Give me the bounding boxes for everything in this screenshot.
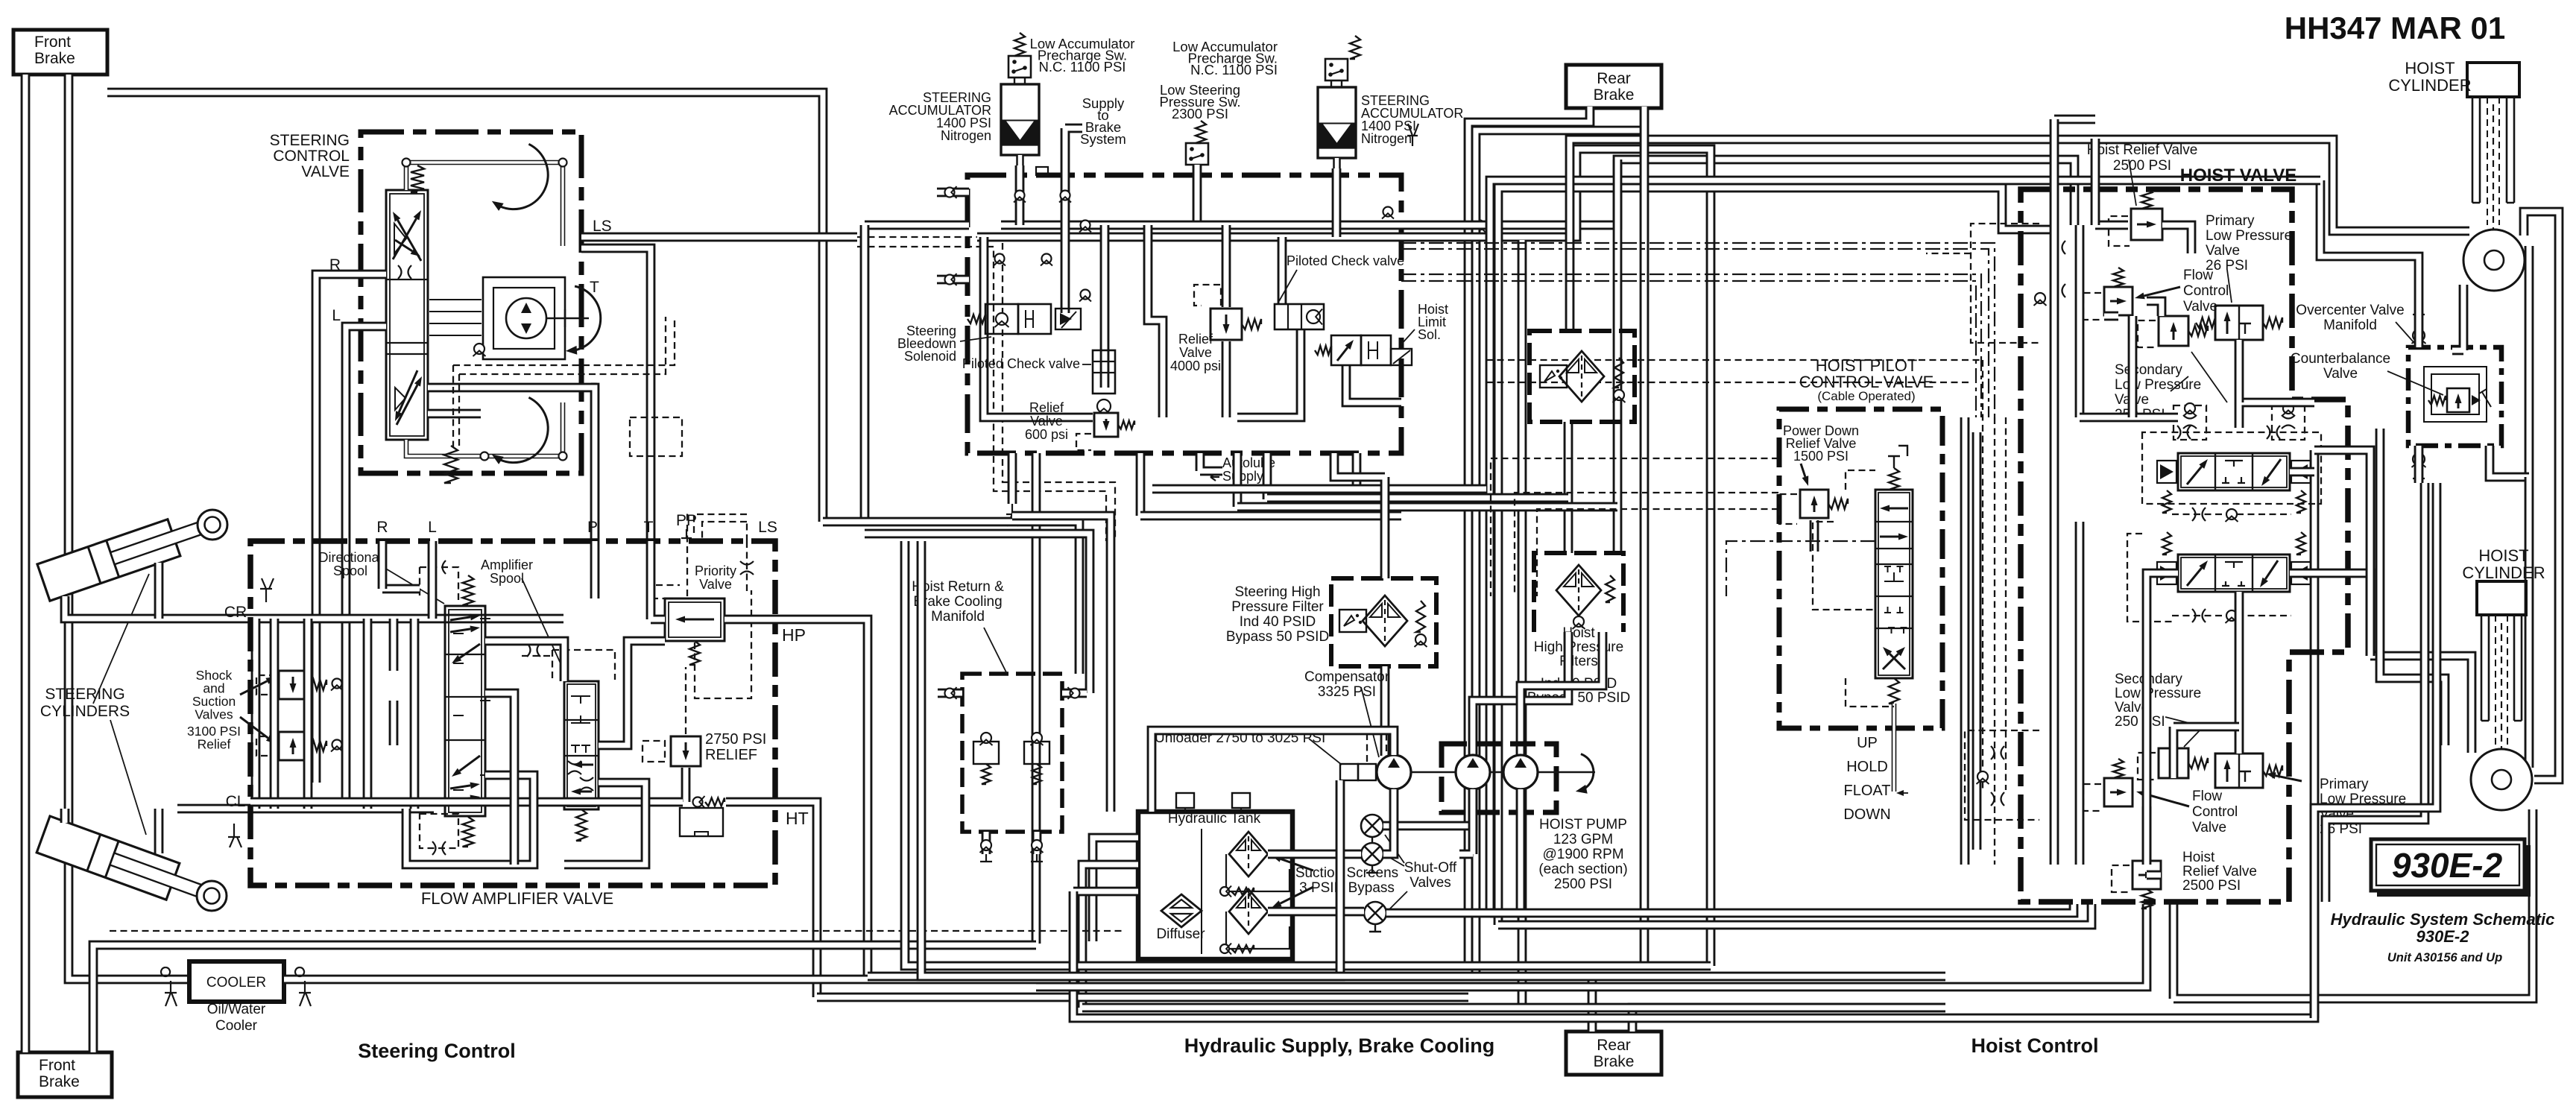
svg-text:System: System [1080, 131, 1126, 147]
steering control valve spool [386, 190, 428, 440]
secondary lp valve top sym [2159, 316, 2188, 346]
wire spool1 top [2239, 402, 2314, 428]
wire pump case drain [1152, 730, 1394, 812]
hoist main spool 2 [2178, 555, 2290, 592]
bleed fitting bottom [228, 824, 241, 847]
pilot cluster1 [1971, 224, 2039, 343]
hydraulic tank [1138, 812, 1292, 959]
svg-text:Low Pressure: Low Pressure [2115, 377, 2201, 393]
pilot line left [1726, 541, 1875, 596]
vent fitting [1407, 124, 1418, 146]
wire cylinder right down [2525, 246, 2534, 477]
svg-text:STEERING: STEERING [270, 132, 350, 149]
svg-text:2300 PSI: 2300 PSI [1172, 106, 1228, 121]
wire L line [346, 326, 386, 799]
pilot long 5 [1491, 458, 1778, 596]
svg-text:Brake: Brake [34, 50, 75, 67]
steering cylinder lower [37, 816, 219, 914]
svg-text:FLOAT: FLOAT [1844, 783, 1891, 799]
wire filter up [1334, 453, 1385, 578]
wire port R drop [378, 541, 388, 589]
wire hv v2 [2075, 225, 2085, 417]
wire stub L2 [937, 275, 969, 285]
svg-text:250 PSI: 250 PSI [2115, 714, 2165, 730]
wire ocm stubs [2414, 313, 2424, 483]
manifold relief 2 [1024, 742, 1049, 764]
wire fc down [2128, 316, 2138, 417]
svg-text:Solenoid: Solenoid [904, 349, 956, 364]
svg-text:Hydraulic Tank: Hydraulic Tank [1168, 811, 1261, 827]
svg-text:Valve: Valve [2192, 820, 2226, 835]
wire psw stem [1193, 165, 1202, 225]
amplifier spool [564, 681, 599, 809]
wire cyl2 port B [154, 809, 164, 853]
svg-text:Manifold: Manifold [2323, 318, 2377, 333]
rear brake box top [1566, 65, 1661, 108]
svg-text:High Pressure: High Pressure [1534, 639, 1623, 655]
wire bottom run G [1490, 904, 2074, 913]
pilot cap top [420, 567, 458, 600]
wire cooler out [284, 975, 1592, 985]
svg-text:3325 PSI: 3325 PSI [1318, 684, 1376, 700]
shock suction valve 1 [279, 671, 307, 699]
hoist relief valve bottom sym [2133, 861, 2161, 889]
screen2 bypass loop [1226, 912, 1289, 949]
wire mid filter link2 [1237, 502, 1617, 512]
svg-text:Steering Control: Steering Control [358, 1040, 516, 1062]
hoist pilot spool [1875, 490, 1913, 678]
svg-text:L: L [428, 519, 437, 536]
svg-text:Shut-Off: Shut-Off [1404, 860, 1457, 876]
wire trunk x2010 link [1498, 188, 2054, 925]
primary low pressure valve bottom sym [2215, 754, 2263, 788]
hoist pump section 2 [1503, 755, 1538, 789]
svg-text:COOLER: COOLER [206, 975, 266, 991]
flow amplifier valve enclosure [250, 541, 775, 885]
wire hls down [1346, 365, 1401, 402]
svg-text:N.C. 1100 PSI: N.C. 1100 PSI [1190, 62, 1278, 78]
pilot 2750 up [685, 667, 686, 734]
svg-text:Diffuser: Diffuser [1156, 926, 1205, 942]
steering hp filter box [1331, 578, 1436, 666]
steering control valve enclosure [361, 132, 581, 473]
wire screen2 out [1268, 907, 1364, 917]
hoist relief valve top sym [2131, 209, 2162, 240]
HT check valve [693, 796, 705, 808]
hoist pilot control valve box [1779, 409, 1942, 728]
wire bottom run B with trunk [905, 541, 1711, 966]
wire shock link [303, 619, 313, 809]
pilot PP orifice line [746, 522, 748, 593]
svg-text:Front: Front [39, 1057, 75, 1074]
svg-text:Brake: Brake [39, 1073, 80, 1090]
svg-text:CL: CL [226, 793, 246, 810]
svg-text:930E-2: 930E-2 [2392, 846, 2503, 885]
wire fa6 [485, 693, 514, 865]
pilot hv trunk5 [2005, 417, 2007, 790]
wire trunk x2170 [1613, 159, 1623, 553]
manifold relief 1 [973, 742, 999, 764]
pilot cluster2 [1965, 730, 2039, 820]
shock suction valve 2 [279, 732, 307, 760]
pilot LS loop A left [453, 365, 459, 447]
pilot long 1b [1401, 249, 1989, 417]
wire CL line [177, 804, 434, 814]
hoist pump section 1 [1456, 755, 1490, 789]
wire trunk x1999 y242 run [1490, 180, 2320, 913]
wire steering valve bottom link [406, 402, 563, 456]
pilot slp [2138, 320, 2156, 347]
wire hv v2b [2075, 522, 2085, 865]
wire mrb stub1 [938, 689, 962, 698]
wire fa5 [564, 783, 645, 865]
svg-text:R: R [376, 519, 388, 536]
pilot spool bottom link [1846, 678, 1894, 707]
wire screen1 out [1268, 850, 1361, 859]
wire hv main vertical [2050, 119, 2059, 865]
directional spool [445, 606, 485, 816]
wire pcv right drop [1278, 237, 1287, 304]
front brake box bottom [18, 1052, 112, 1097]
overcenter manifold box [2408, 347, 2501, 446]
wire R line [316, 274, 386, 783]
svg-text:(each section): (each section) [1538, 862, 1627, 877]
svg-text:Valve: Valve [2206, 243, 2240, 259]
wire supply drop trunk [860, 225, 870, 522]
wire bottom run I [1036, 904, 2147, 987]
svg-text:N.C. 1100 PSI: N.C. 1100 PSI [1039, 59, 1126, 75]
svg-text:123 GPM: 123 GPM [1553, 832, 1613, 847]
wire mandrop5 [1263, 453, 1272, 499]
svg-text:Nitrogen: Nitrogen [1361, 131, 1412, 146]
svg-text:Low Pressure: Low Pressure [2115, 686, 2201, 701]
pump shaft [1411, 771, 1595, 774]
wire filters to pump1 [1473, 632, 1568, 756]
wire hrv topstub [2054, 115, 2095, 124]
svg-text:Front: Front [34, 34, 71, 51]
relief valve 2750 [671, 736, 701, 766]
wire overcenter feed [2320, 180, 2419, 313]
svg-text:Brake: Brake [1594, 86, 1635, 104]
hoist main spool 1 [2178, 453, 2290, 490]
wire shock mid [389, 619, 399, 745]
svg-text:Valve: Valve [1179, 345, 1212, 360]
svg-text:Valve: Valve [2323, 366, 2358, 382]
svg-text:HH347 MAR 01: HH347 MAR 01 [2285, 10, 2505, 45]
svg-text:Spool: Spool [333, 563, 367, 578]
wire mrb stub2 [1062, 689, 1087, 698]
wire hrv link [2095, 225, 2191, 253]
wire T inner [428, 409, 481, 419]
pilot bottom dashed [110, 930, 1122, 932]
svg-text:T: T [590, 279, 599, 296]
svg-text:HOIST VALVE: HOIST VALVE [2180, 165, 2296, 186]
screen1 bypass loop [1226, 854, 1289, 891]
svg-text:P: P [587, 519, 598, 536]
cooler box [189, 961, 284, 1002]
svg-text:Hoist Control: Hoist Control [1972, 1034, 2099, 1057]
wire rear brake left to trunk [1468, 107, 1590, 966]
wire hv to ocm [2314, 450, 2370, 492]
pilot long 2a [1401, 274, 1981, 417]
wire mandrop1 [1008, 453, 1017, 504]
wire CR line [177, 614, 563, 624]
pilot priority box [653, 585, 680, 598]
svg-text:HOIST: HOIST [2405, 59, 2455, 78]
pilot LS loop A [453, 317, 675, 374]
wire fcb down [2142, 806, 2152, 861]
suction screen 1 [1229, 832, 1268, 876]
svg-text:LS: LS [593, 218, 612, 235]
wire acc2 into bus [1332, 168, 1342, 237]
svg-text:Control: Control [2192, 804, 2238, 820]
wire supply branch [1100, 225, 1110, 388]
tank divider [1201, 829, 1202, 954]
svg-text:Rear: Rear [1597, 70, 1631, 87]
pilot hv trunk4 [1994, 417, 1995, 865]
wire supply to manifold2 [865, 534, 1090, 693]
wire HT run right [726, 802, 817, 997]
wire tank left3 [1073, 887, 1138, 897]
wire bottom run E [1073, 450, 2314, 1018]
wire port T drop [651, 541, 665, 619]
pilot long 1a [1401, 243, 1995, 417]
wire mandrop4 [1233, 453, 1243, 507]
wire mid band y656 [1152, 484, 1486, 494]
wire shock right side [410, 619, 420, 809]
pilot priority up [686, 513, 688, 596]
svg-text:LS: LS [758, 519, 777, 536]
svg-text:2750 PSI: 2750 PSI [705, 731, 766, 748]
pilot PP drop [694, 514, 747, 541]
wire acc1 into bus [1015, 165, 1025, 225]
wire mandrop6 [1352, 453, 1362, 489]
hoist return brake cooling manifold [962, 674, 1062, 832]
svg-text:HOIST: HOIST [2478, 546, 2528, 565]
svg-text:Valve: Valve [699, 577, 732, 592]
drain cooler 1 [161, 967, 177, 1006]
pilot hv trunk3 [1982, 360, 1983, 790]
steering metering gerotor [483, 277, 565, 359]
svg-text:RELIEF: RELIEF [705, 747, 757, 763]
svg-text:Amplifier: Amplifier [481, 557, 533, 572]
wire supply down [1061, 170, 1070, 313]
wire trunk x2042 [1518, 240, 1527, 1008]
wire cyl cross [251, 619, 261, 809]
wire slp link [2173, 727, 2239, 778]
wire mandrop2 [1032, 453, 1041, 944]
svg-text:L: L [332, 307, 341, 324]
wire ocm down trunk2 [2314, 483, 2437, 1018]
shut-off valve 3 [1364, 902, 1386, 924]
wire manifold to hoist relief [1401, 159, 2074, 225]
svg-text:CYLINDER: CYLINDER [2388, 76, 2471, 95]
secondary lp valve bottom sym [2159, 748, 2188, 778]
piloted check valve left [1093, 350, 1115, 394]
wire bottom run D [1082, 1003, 1945, 1013]
wire bottom run H [1498, 904, 2092, 925]
pilot sq2 [2272, 405, 2305, 440]
svg-text:Secondary: Secondary [2115, 362, 2182, 378]
svg-text:Piloted Check valve: Piloted Check valve [1287, 253, 1404, 268]
svg-text:Counterbalance: Counterbalance [2291, 351, 2390, 367]
pilot long 2b [1401, 281, 1976, 417]
wire y187 run to hoist cylinder [1570, 139, 2469, 331]
svg-text:Relief: Relief [1178, 332, 1213, 347]
svg-text:930E-2: 930E-2 [2416, 927, 2470, 946]
wire spool2 center down [2235, 592, 2244, 754]
flow control valve top sym [2104, 287, 2133, 315]
relief valve 4000 [1210, 309, 1242, 340]
svg-text:Primary: Primary [2320, 777, 2369, 792]
steering bleedown solenoid [985, 304, 1018, 334]
svg-text:HP: HP [782, 625, 806, 645]
svg-text:1500 PSI: 1500 PSI [1793, 449, 1849, 464]
wire hv trunk2 [1972, 432, 1982, 850]
pilot spool top link [1846, 470, 1875, 490]
wire filter to pump [1380, 666, 1390, 756]
wire manifold bus2 [977, 233, 1401, 242]
svg-text:Brake Cooling: Brake Cooling [913, 594, 1002, 610]
hoist cylinder bottom [2477, 581, 2526, 615]
svg-text:HOLD: HOLD [1846, 759, 1888, 775]
pilot LS loop A box [630, 417, 682, 456]
pilot fcv2 [2083, 784, 2101, 811]
wire manifold to tank [1012, 516, 1111, 812]
svg-text:T: T [644, 519, 654, 536]
svg-text:Cooler: Cooler [215, 1018, 258, 1034]
pilot fcv [2083, 293, 2101, 320]
wire bottom run C [817, 993, 1468, 1002]
wire mrb d2 [1032, 832, 1042, 854]
wire cyl1 port A [65, 596, 177, 619]
wire rear brake bottom2 [1632, 1008, 1945, 1032]
svg-text:Hoist Relief Valve: Hoist Relief Valve [2087, 142, 2198, 158]
wire trunk x1236 run F [921, 541, 1945, 976]
svg-text:Relief: Relief [198, 737, 231, 752]
wire LS out [581, 233, 857, 242]
pilot long 7 [1537, 509, 1778, 596]
svg-text:CYLINDER: CYLINDER [2462, 563, 2545, 582]
counterbalance valve sym [2447, 388, 2469, 412]
pilot cluster1b [1926, 253, 1971, 254]
svg-text:2500 PSI: 2500 PSI [2182, 878, 2241, 894]
front brake box top [13, 30, 107, 75]
pilot LS long 2 [857, 247, 1106, 541]
wire filters to pump2 [1521, 632, 1603, 756]
wire rear brake right to trunk [1476, 130, 1644, 976]
pilot shock2 [256, 736, 276, 756]
wire fa4 [599, 641, 665, 745]
wire 2750 out [681, 768, 691, 802]
wire mandrop3 [1136, 453, 1146, 516]
pilot slp2 [2138, 753, 2156, 780]
pilot shock1 [256, 675, 276, 695]
steering cylinder upper [37, 505, 221, 601]
unloader boxes [1340, 764, 1358, 780]
930E-2 badge [2377, 845, 2531, 897]
svg-text:Control: Control [2183, 283, 2229, 299]
wire trunk x2206 [1640, 107, 1650, 966]
steering accumulator 2 [1318, 87, 1356, 158]
wire front brake left vertical [21, 75, 31, 1052]
hoist cylinder top [2467, 63, 2519, 97]
pilot priority drain loop [695, 590, 751, 698]
svg-text:Valves: Valves [1409, 875, 1451, 891]
svg-text:CONTROL: CONTROL [273, 148, 350, 165]
svg-text:CR: CR [224, 604, 247, 621]
svg-text:HOIST PUMP: HOIST PUMP [1539, 817, 1627, 833]
piloted check valve right [1275, 304, 1324, 329]
svg-text:Manifold: Manifold [931, 609, 985, 625]
pilot cap bottom [420, 814, 458, 848]
pilot long 3 [1486, 359, 1983, 361]
svg-text:Steering High: Steering High [1234, 584, 1320, 600]
svg-text:Rear: Rear [1597, 1037, 1631, 1054]
hoist limit solenoid [1331, 335, 1361, 365]
pilot spool2 bot [2172, 615, 2291, 616]
shut-off valve 1 [1361, 815, 1383, 837]
wire filter drop [1564, 422, 1573, 553]
wire fa top link [382, 584, 420, 594]
svg-text:FLOW AMPLIFIER VALVE: FLOW AMPLIFIER VALVE [421, 889, 613, 908]
wire relief4000 up [1222, 225, 1231, 307]
power down relief valve [1800, 490, 1828, 518]
svg-text:Compensator: Compensator [1304, 669, 1390, 685]
wire right trunk [2366, 492, 2375, 656]
svg-text:Priority: Priority [695, 563, 736, 578]
wire T top [581, 248, 651, 257]
pilot amp cap [552, 650, 615, 680]
wire fa3 [406, 775, 534, 865]
svg-text:DOWN: DOWN [1843, 806, 1890, 823]
hoist pump box [1442, 744, 1556, 812]
wire port L drop [428, 541, 438, 619]
svg-text:Valves: Valves [195, 707, 233, 722]
pilot pdr link [1813, 522, 1875, 610]
drain cooler 2 [295, 967, 311, 1006]
svg-text:Pressure Filter: Pressure Filter [1231, 599, 1324, 615]
svg-text:Spool: Spool [490, 571, 524, 586]
wire spool2 right [2290, 573, 2370, 656]
wire mid filter link [1140, 511, 1401, 521]
wire manifold bus2 right trunk x2295 [1401, 149, 1711, 966]
breather 1 [1176, 793, 1194, 808]
wire fc link [2104, 301, 2162, 316]
wire pump suction2 [1386, 789, 1521, 913]
wire tank left1 [1093, 838, 1138, 941]
svg-text:Sol.: Sol. [1418, 327, 1441, 342]
leader steering cylinders [93, 574, 149, 835]
wire spool1 right [2290, 467, 2314, 477]
wire hv trunk1 [1960, 417, 1970, 865]
wire HT run left [250, 797, 683, 807]
rotation arrows [500, 144, 549, 209]
wire hc1 feed3 [2452, 285, 2463, 350]
wire plp down [2235, 340, 2244, 402]
wire hc2 feed1 [2370, 656, 2472, 753]
hoist hp filters box [1534, 553, 1623, 632]
wire relief4000 dn [1222, 341, 1231, 417]
pilot spool1 bot [2172, 514, 2291, 515]
svg-text:Hydraulic Supply, Brake Coolin: Hydraulic Supply, Brake Cooling [1184, 1034, 1495, 1057]
wire pump suction1 [1383, 789, 1473, 826]
wire manifold bus1 [1001, 221, 1401, 230]
wire hv spool1 left [2080, 413, 2178, 423]
wire autolube [1200, 453, 1222, 471]
wire manifold loop2 [1148, 225, 1163, 417]
svg-text:Relief: Relief [1029, 400, 1064, 415]
